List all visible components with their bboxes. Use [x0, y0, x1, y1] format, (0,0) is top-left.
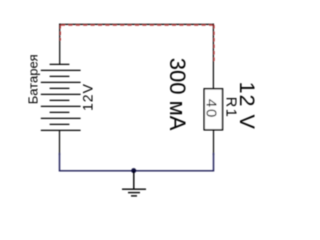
- battery (Батарея), 12 plates alternating short/long: [41, 64, 81, 130]
- resistor R1 body: [204, 89, 222, 130]
- svg-text:40: 40: [202, 99, 219, 119]
- wire left vertical from battery positive to top corner: [59, 24, 62, 65]
- junction dot at ground tap: [131, 168, 136, 173]
- resistor R1 bottom lead: [213, 130, 215, 155]
- svg-text:12 V: 12 V: [235, 82, 259, 130]
- wire right vertical from top corner to resistor R1: [212, 24, 215, 89]
- svg-text:300 мА: 300 мА: [165, 58, 190, 131]
- wire bottom (ground net, blue): [60, 153, 214, 171]
- ground symbol: [122, 171, 146, 196]
- svg-text:12V: 12V: [79, 83, 95, 111]
- svg-text:Батарея: Батарея: [25, 54, 40, 104]
- battery negative lead (bottom): [59, 130, 61, 155]
- wire top horizontal (net 1, highlighted): [59, 23, 214, 26]
